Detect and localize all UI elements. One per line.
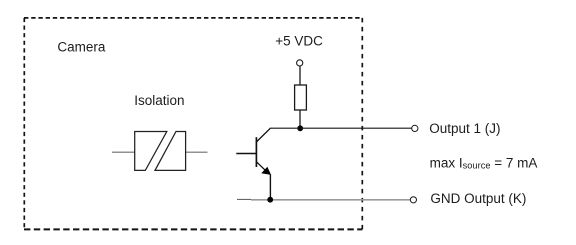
svg-text:+5 VDC: +5 VDC bbox=[275, 33, 323, 48]
svg-text:GND Output (K): GND Output (K) bbox=[430, 191, 526, 206]
svg-text:Output 1 (J): Output 1 (J) bbox=[429, 121, 500, 136]
svg-text:Camera: Camera bbox=[57, 40, 106, 55]
svg-text:Isolation: Isolation bbox=[134, 93, 184, 108]
svg-text:max Isource = 7 mA: max Isource = 7 mA bbox=[430, 156, 538, 171]
